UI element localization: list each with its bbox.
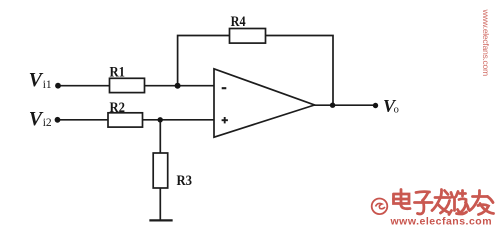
svg-text:www.elecfans.com: www.elecfans.com	[390, 216, 493, 228]
svg-text:V: V	[29, 69, 44, 91]
svg-text:R2: R2	[110, 100, 126, 116]
svg-text:V: V	[29, 108, 44, 130]
svg-text:R1: R1	[110, 64, 126, 80]
svg-text:R4: R4	[231, 14, 246, 30]
svg-text:R3: R3	[177, 173, 193, 189]
svg-text:i1: i1	[43, 79, 52, 91]
svg-text:o: o	[394, 104, 399, 115]
svg-text:www.elecfans.com: www.elecfans.com	[481, 9, 491, 77]
svg-text:i2: i2	[43, 117, 52, 129]
